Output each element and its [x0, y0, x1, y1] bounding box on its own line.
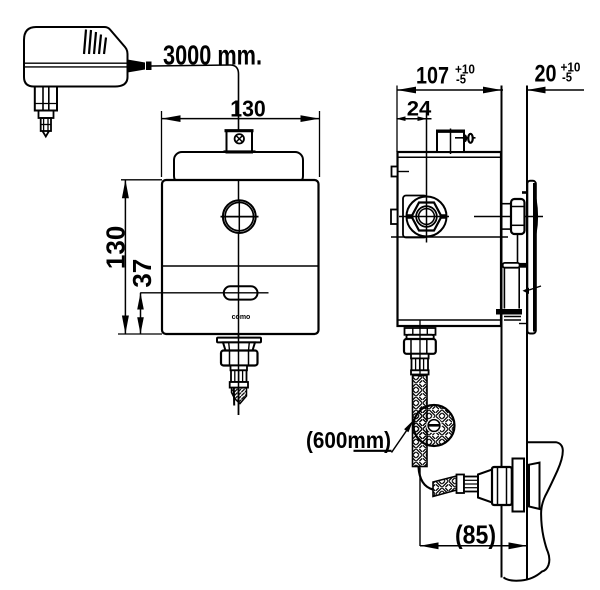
svg-text:como: como	[232, 314, 251, 321]
svg-text:(600mm): (600mm)	[306, 427, 391, 453]
svg-text:3000 mm.: 3000 mm.	[163, 40, 262, 71]
svg-text:107: 107	[416, 63, 449, 90]
svg-text:24: 24	[407, 97, 432, 120]
svg-text:130: 130	[101, 226, 131, 269]
svg-text:-5: -5	[456, 72, 466, 87]
svg-text:130: 130	[230, 96, 266, 122]
svg-text:-5: -5	[562, 70, 572, 85]
svg-text:(85): (85)	[455, 520, 496, 550]
svg-text:37: 37	[127, 259, 157, 288]
svg-text:20: 20	[535, 61, 557, 88]
